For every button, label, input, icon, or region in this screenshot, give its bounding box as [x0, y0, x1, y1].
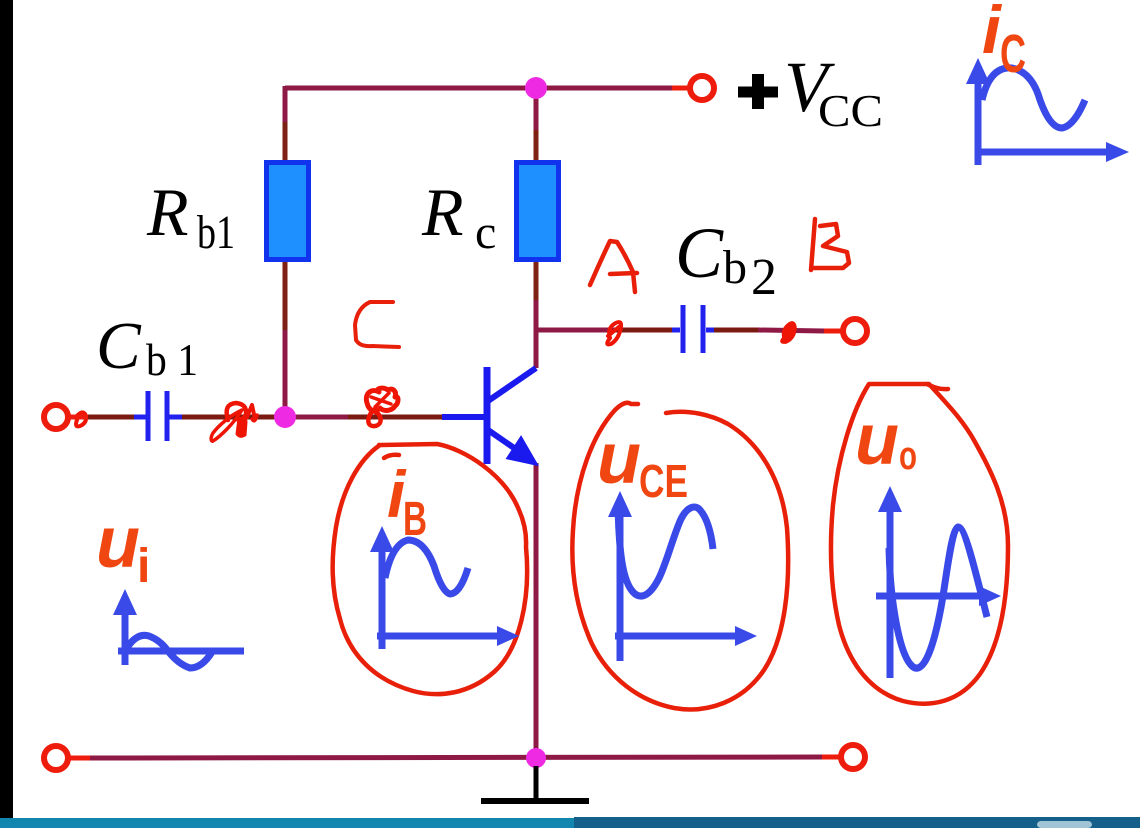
transistor Q1 — [442, 367, 536, 464]
terminal: input — [44, 405, 88, 429]
scribble on input wire — [211, 403, 257, 441]
graph uCE: axes — [615, 510, 746, 661]
svg-text:C: C — [675, 213, 724, 293]
graph uo: red circle — [831, 384, 1008, 704]
wire: input Cb1 to base node — [180, 415, 285, 420]
left black border — [0, 0, 13, 818]
graph uo: sine — [889, 527, 987, 668]
annotation C — [355, 302, 399, 347]
wire: Rb1 bottom vertical to base node — [283, 260, 288, 330]
graph iB: red circle — [333, 444, 527, 694]
graph uCE: red circle — [572, 403, 788, 710]
wire: Rc bottom vertical to collector — [534, 260, 539, 368]
graph ui: sine — [125, 635, 212, 668]
svg-text:C: C — [96, 309, 142, 383]
wire: bottom ground rail — [88, 757, 822, 758]
bottom bar light tab — [1037, 821, 1092, 828]
node: base junction dot — [274, 406, 296, 428]
resistor Rc — [517, 163, 559, 260]
svg-text:R: R — [421, 174, 464, 250]
wire: input left segment — [86, 415, 140, 420]
svg-text:u: u — [96, 503, 140, 583]
svg-text:o: o — [899, 434, 917, 478]
graph ic: sine — [982, 68, 1085, 128]
terminal: +Vcc — [672, 76, 714, 100]
wire: Rb1 top vertical — [283, 86, 288, 122]
node: VCC rail junction dot — [525, 77, 547, 99]
wire: output branch brick segment to Cb2 — [615, 328, 676, 333]
bottom teal bar right segment — [574, 817, 1140, 828]
svg-text:2: 2 — [751, 249, 777, 306]
label +Vcc plus sign — [738, 87, 778, 98]
wire: base wire from node to transistor — [285, 415, 348, 420]
svg-text:b 1: b 1 — [146, 334, 198, 385]
graph iB: axes — [377, 545, 508, 649]
resistor Rb1 — [267, 163, 309, 260]
svg-text:R: R — [146, 174, 189, 250]
bottom teal bar left segment — [0, 818, 574, 828]
svg-text:u: u — [597, 419, 641, 499]
wire: Rc top vertical — [534, 86, 539, 162]
terminal: bottom right — [822, 745, 865, 769]
terminal: output top — [824, 319, 867, 343]
scribble dot A on output wire — [607, 322, 621, 344]
svg-text:u: u — [855, 400, 899, 480]
graph ui: axes — [118, 605, 244, 665]
capacitor Cb2 — [672, 305, 714, 353]
annotation A — [590, 241, 637, 292]
node: ground junction dot — [526, 748, 546, 768]
wire: output branch from collector — [536, 328, 618, 333]
wire: maroon segment near output terminal — [758, 330, 824, 331]
graph uo: axes — [876, 505, 990, 678]
svg-text:c: c — [475, 206, 496, 259]
graph iB: sine — [385, 540, 468, 594]
terminal: bottom left — [44, 746, 90, 770]
transistor emitter arrowhead — [508, 438, 536, 464]
graph ic: axes — [978, 78, 1118, 165]
svg-text:CC: CC — [818, 85, 883, 136]
svg-text:CE: CE — [639, 455, 688, 507]
capacitor Cb1 — [134, 391, 182, 441]
ground — [481, 766, 589, 801]
wire: emitter vertical down to ground rail — [534, 463, 539, 758]
wire: top rail — [285, 86, 672, 91]
scribble on base wire — [366, 388, 398, 426]
graph iB: pen start fragment — [384, 455, 399, 458]
annotation B — [811, 219, 849, 270]
graph uCE: sine — [618, 504, 713, 596]
graph uo: pen tail — [927, 384, 948, 389]
svg-text:b1: b1 — [197, 206, 235, 259]
svg-text:b: b — [723, 241, 747, 294]
svg-text:C: C — [1000, 24, 1026, 84]
wire: Cb2 right to output terminal — [710, 328, 760, 333]
scribble blob near input terminal — [76, 412, 86, 426]
svg-text:i: i — [137, 540, 150, 593]
scribble dot B on output wire — [782, 323, 795, 342]
